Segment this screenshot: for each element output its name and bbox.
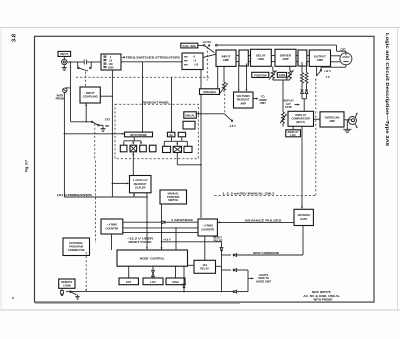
page left edge	[0, 28, 2, 310]
diode D9 on LOC wire	[152, 270, 155, 276]
lights grid diode D7	[222, 269, 249, 279]
skip command diode D6	[222, 251, 304, 257]
svg-text:PULSE: PULSE	[214, 238, 223, 242]
svg-text:AC: AC	[169, 133, 173, 137]
page top edge	[0, 27, 400, 29]
svg-text:EXT: EXT	[126, 280, 131, 284]
probe connector P1	[63, 88, 71, 93]
svg-text:COUPLING: COUPLING	[83, 95, 99, 99]
advance gate box	[294, 209, 313, 225]
svg-text:CAL SIG: CAL SIG	[183, 44, 197, 48]
svg-text:÷10: ÷10	[194, 63, 199, 67]
wire A1 to A2	[121, 61, 182, 63]
readout panel dashed box	[115, 101, 198, 159]
svg-text:PROBE: PROBE	[56, 97, 65, 101]
button EXT	[119, 278, 139, 285]
top bus to CRT	[217, 45, 346, 53]
int/ext switch SW4	[71, 117, 111, 128]
svg-text:READOUT: READOUT	[237, 98, 250, 102]
svg-text:÷ 4 RING: ÷ 4 RING	[107, 222, 118, 226]
diode D5 on vertical	[220, 248, 223, 251]
printing mark	[12, 297, 14, 299]
svg-text:GATE: GATE	[285, 105, 292, 109]
input connector J1	[62, 56, 67, 64]
svg-text:Logic and Circuit Description—: Logic and Circuit Description—Type 3A5	[385, 33, 390, 147]
svg-text:1 ADVANCE: 1 ADVANCE	[171, 218, 193, 222]
label WITH PROBE (panel)	[125, 132, 153, 137]
scaler to command line	[133, 193, 135, 197]
reset pulse label	[213, 236, 222, 243]
wire pair T1 to delay line	[248, 56, 250, 62]
wire comparator to loc	[292, 126, 294, 130]
-12.2V label	[127, 237, 153, 244]
svg-text:SWITCH: SWITCH	[168, 198, 178, 202]
svg-text:VARIABLE: VARIABLE	[203, 90, 216, 94]
diagram border frame	[35, 36, 375, 302]
manual-only dashed line	[214, 191, 315, 195]
coupling capacitor C1	[80, 60, 101, 65]
wire pots to comparator pot	[273, 80, 290, 112]
wire pair U1 to T1	[236, 56, 239, 62]
ground at SW4	[99, 125, 105, 131]
svg-text:AC DC: AC DC	[203, 40, 211, 44]
attenuator sense bus	[112, 70, 114, 197]
MPS output wire	[161, 204, 163, 250]
with-probe sense bus	[64, 133, 125, 135]
svg-text:OVERSCAN: OVERSCAN	[325, 115, 340, 119]
svg-text:EXT: EXT	[105, 117, 110, 121]
wires from delay pair down	[238, 63, 248, 91]
wire freq bus down to panel	[142, 62, 144, 132]
svg-text:DISPLAY: DISPLAY	[295, 113, 306, 117]
termination box T1	[239, 50, 248, 66]
svg-text:CONN: CONN	[63, 284, 71, 288]
attenuator A1	[101, 54, 121, 70]
svg-text:INT: INT	[105, 124, 110, 128]
driver amp U2	[275, 49, 296, 66]
INPUT label	[58, 51, 71, 56]
page bottom edge	[0, 309, 400, 311]
coupling switch SW1	[78, 62, 92, 71]
ground at overscan lamp	[343, 120, 351, 133]
svg-text:130: 130	[108, 62, 113, 66]
wafer S10A feed bracket	[124, 137, 142, 145]
relay box	[194, 260, 216, 273]
svg-text:EXTERNAL: EXTERNAL	[69, 241, 83, 245]
svg-text:AMP: AMP	[223, 58, 229, 62]
mech link SW4	[94, 124, 96, 159]
advance pulses wire	[218, 218, 294, 223]
wire pair T2 to output amp	[307, 56, 310, 62]
manual position switch	[160, 190, 187, 204]
svg-text:SEE INPUT,: SEE INPUT,	[312, 290, 332, 294]
overscan lamp DS1	[348, 112, 357, 128]
svg-text:WITH PROBE: WITH PROBE	[314, 297, 333, 301]
svg-text:AMP: AMP	[329, 119, 335, 123]
wire pair to CRT plates	[331, 56, 341, 62]
mech link pot to SW5	[224, 94, 226, 114]
scaler to mode control	[146, 193, 148, 250]
input amp U1	[216, 50, 236, 66]
svg-text:READOUT: READOUT	[134, 182, 147, 186]
reset pulse wire	[162, 242, 222, 248]
svg-text:(X) COMMANDS: (X) COMMANDS	[57, 193, 92, 197]
wire down to AC coil	[171, 77, 172, 132]
signal tap to SW4	[70, 61, 71, 122]
scaler feed arrow	[112, 182, 129, 184]
front panel dashed boundary top	[76, 76, 209, 78]
(X) COMMANDS wire	[57, 193, 147, 197]
external program connector	[63, 238, 90, 256]
svg-text:÷ 5 RING: ÷ 5 RING	[202, 223, 213, 227]
svg-text:COUNTER: COUNTER	[201, 227, 214, 231]
join to comparator	[302, 99, 307, 112]
wire relay to bus	[216, 265, 222, 267]
svg-text:MAN: MAN	[173, 280, 179, 284]
dashed program link	[85, 252, 87, 291]
svg-text:+4.6 V: +4.6 V	[163, 238, 171, 242]
svg-text:COMPARATOR: COMPARATOR	[291, 117, 310, 121]
svg-text:WITH PROBE: WITH PROBE	[130, 133, 147, 137]
variable control label	[200, 89, 220, 95]
border shadow	[35, 302, 240, 304]
termination box T2	[298, 50, 307, 66]
advance diode D3	[123, 218, 198, 224]
position pot RV1	[269, 66, 277, 80]
sep switch SW3	[317, 69, 331, 79]
counter link wires	[123, 228, 198, 233]
svg-text:HORIZ UNIT: HORIZ UNIT	[256, 279, 271, 283]
front panel dashed right	[315, 79, 317, 196]
label WITH PROBE (left)	[56, 93, 65, 100]
svg-text:SKIP COMMAND: SKIP COMMAND	[253, 251, 279, 255]
svg-text:LOC: LOC	[150, 280, 156, 284]
gain label	[277, 72, 286, 77]
cal/signal switch SW2	[198, 40, 217, 53]
wire advance gate down	[302, 226, 304, 256]
wire coupling box to int/ext switch	[85, 103, 87, 122]
comparator pot RV3	[280, 112, 287, 127]
attenuator A2	[182, 53, 203, 70]
svg-text:ADVANCE PULSES: ADVANCE PULSES	[245, 218, 282, 222]
remote connector box	[59, 279, 75, 288]
gain pot RV2	[286, 66, 294, 80]
svg-text:POSITION: POSITION	[254, 73, 267, 77]
svg-text:3-8: 3-8	[12, 34, 18, 42]
aux coil box	[178, 132, 185, 137]
svg-text:REMOTE: REMOTE	[61, 280, 72, 284]
readout scaler box	[130, 176, 152, 193]
relay coil box AC	[167, 132, 175, 137]
wire overscan to lamp	[344, 119, 352, 121]
see-note text	[303, 290, 340, 301]
CAL SIG box	[181, 43, 198, 48]
output amp U3	[309, 50, 330, 66]
pickoff resistors R1 R2	[301, 62, 304, 90]
uncal window box	[183, 121, 195, 129]
diode D4 to ground bus	[183, 266, 186, 291]
ground under J1	[62, 65, 67, 71]
to horiz unit arrow	[253, 95, 267, 106]
svg-text:SCALER: SCALER	[135, 186, 146, 190]
button LOC	[143, 278, 163, 285]
wafer switch S10A contacts	[120, 145, 156, 152]
wire /4 to mode control	[111, 234, 113, 250]
uncal lamp box	[184, 112, 197, 118]
position label	[252, 72, 269, 77]
svg-text:(MULT): (MULT)	[296, 120, 305, 124]
label FREQ-SWITCHED ATTENUATORS	[122, 55, 180, 59]
svg-text:1 X: 1 X	[326, 75, 330, 79]
uncal switch SW5	[224, 114, 236, 128]
wire input amp down	[217, 66, 219, 88]
bottom bus	[75, 291, 233, 292]
mech link program	[95, 161, 97, 244]
variable pot RV4	[220, 66, 228, 93]
mode control box	[117, 250, 188, 266]
svg-text:VOLTS/DIV: VOLTS/DIV	[236, 94, 250, 98]
svg-text:RESET PULSE: RESET PULSE	[129, 240, 152, 244]
svg-text:1, 2, 5 mV/DIV MANUAL ONLY: 1, 2, 5 mV/DIV MANUAL ONLY	[223, 191, 275, 195]
wire A2 to input amp	[203, 54, 216, 57]
svg-text:1000: 1000	[108, 66, 114, 70]
svg-text:GAIN: GAIN	[279, 73, 286, 77]
bottom bus diode D8	[233, 278, 248, 293]
svg-text:MODE CONTROL: MODE CONTROL	[140, 256, 165, 260]
overscan amp	[320, 112, 344, 127]
input coupling box	[80, 87, 100, 103]
svg-text:AC, DC & GND, UNCAL: AC, DC & GND, UNCAL	[303, 294, 340, 298]
svg-text:UNIT: UNIT	[260, 101, 266, 105]
ring counter /4	[101, 219, 123, 234]
CRT return wire	[321, 65, 346, 70]
svg-text:COUNTER: COUNTER	[105, 226, 118, 230]
svg-text:READOUT PANEL: READOUT PANEL	[143, 101, 170, 105]
svg-text:−4.6 V: −4.6 V	[228, 124, 236, 128]
svg-text:1 mV/10 mV: 1 mV/10 mV	[133, 178, 148, 182]
main vertical bus from A2	[200, 70, 202, 219]
command bus vertical	[63, 134, 65, 197]
svg-text:ADVANCE: ADVANCE	[297, 213, 310, 217]
ground at remote	[75, 295, 79, 299]
wire /5 to relay	[204, 236, 206, 260]
button MAN	[166, 278, 185, 285]
wire probe down	[63, 92, 65, 133]
svg-text:LINE: LINE	[258, 57, 265, 61]
svg-text:CONNECTOR: CONNECTOR	[68, 248, 85, 252]
remote plug symbol	[61, 288, 64, 296]
wire coupling box right	[100, 96, 113, 97]
svg-text:AMP: AMP	[317, 58, 323, 62]
volts/div readout amp	[234, 92, 254, 108]
mech link switch to input coupling	[84, 72, 86, 87]
counter tap to mode control	[175, 227, 177, 250]
wire pair delay to driver	[271, 56, 275, 62]
mech link SW2 to attenuators	[206, 47, 208, 81]
diode D1	[301, 90, 304, 99]
svg-text:−12.2 V USER: −12.2 V USER	[127, 237, 153, 241]
display loc box	[286, 130, 301, 137]
wire wafer to scaler	[132, 152, 134, 176]
svg-text:PROGRAM: PROGRAM	[69, 245, 83, 249]
wire mode to relay	[188, 264, 195, 266]
svg-text:12A: 12A	[202, 263, 207, 267]
wire wafer right to bus	[177, 153, 202, 166]
svg-text:UNCAL: UNCAL	[185, 114, 195, 118]
wire output amp down	[316, 66, 318, 76]
right bus vertical	[221, 251, 223, 292]
wafer S10B feed bracket	[164, 137, 187, 147]
wire J1 to coupling switch	[67, 61, 80, 63]
wire pair driver to T2	[296, 56, 298, 62]
uncal wire with arrow	[197, 113, 225, 115]
wafer switch S10B contacts	[163, 146, 193, 152]
svg-text:CRT: CRT	[340, 47, 346, 51]
svg-text:GATE: GATE	[300, 217, 307, 221]
svg-text:FREQ-SWITCHED ATTENUATORS: FREQ-SWITCHED ATTENUATORS	[126, 55, 180, 59]
svg-text:Fig. 3-7: Fig. 3-7	[25, 160, 29, 172]
wires to buttons	[129, 266, 176, 278]
svg-text:AMP: AMP	[282, 57, 288, 61]
svg-text:LOC: LOC	[290, 133, 296, 137]
svg-text:AMP: AMP	[240, 101, 246, 105]
ring counter /5	[198, 219, 217, 236]
remote switch contact	[66, 291, 77, 295]
CRT V1	[340, 47, 352, 64]
svg-text:RELAY: RELAY	[200, 267, 209, 271]
wire comparator to overscan	[314, 118, 321, 120]
wire display loc to advance gate	[301, 126, 303, 209]
diode D2	[305, 90, 308, 99]
display comparator	[288, 111, 314, 126]
display gate label	[283, 99, 300, 110]
page right edge	[397, 28, 399, 310]
svg-text:INPUT: INPUT	[60, 52, 68, 56]
svg-text:+12 V: +12 V	[324, 69, 331, 73]
lights grid label	[248, 273, 271, 284]
delay line block	[251, 49, 272, 66]
